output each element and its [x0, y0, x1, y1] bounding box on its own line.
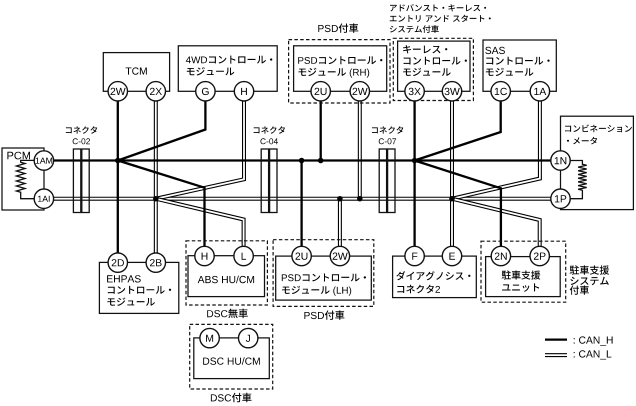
dashed group parking assist system: [481, 241, 566, 302]
terminal 2B EHPAS: [146, 253, 165, 272]
label PSD RH group: [318, 23, 358, 33]
legend CAN_H sample line: [545, 338, 567, 340]
connector C-04: [261, 149, 277, 213]
label keyless module line3: [403, 68, 451, 76]
connector C-07: [379, 149, 395, 213]
note advanced keyless line2: [390, 15, 491, 22]
junction CAN_L / keyless-SAS-diag-parking: [449, 196, 455, 202]
label keyless module line2: [404, 57, 467, 65]
CAN_L bus (hollow double line): [54, 197, 551, 201]
dashed group DSC: [190, 324, 273, 389]
wire H 4WD to CAN_L junction: [156, 101, 244, 199]
wire CAN_H junction to 2N parking: [415, 161, 501, 248]
label SAS line1: [485, 47, 505, 54]
box 4WD control module: [178, 46, 277, 92]
terminal 1AM PCM: [34, 151, 53, 170]
resistor in combination meter (terminating): [570, 161, 586, 199]
wire 2X-2B (CAN_L drop TCM/EHPAS): [154, 101, 158, 253]
label C-04: [260, 138, 278, 144]
terminal 1C SAS: [491, 82, 510, 101]
wire CAN_L junction to L ABS: [156, 199, 244, 247]
junction CAN_L / PSD(LH) 2W: [337, 196, 343, 202]
terminal 1P meter: [551, 189, 570, 208]
terminal 2U PSD LH: [292, 246, 311, 265]
label DSC-less group: [207, 309, 248, 319]
label PSD LH group: [304, 310, 344, 320]
box TCM: [103, 53, 169, 92]
label diagnosis connector line1: [396, 271, 470, 280]
label connector C-04: [254, 126, 285, 133]
terminal 3W keyless: [442, 82, 461, 101]
box PSD control module (LH): [276, 256, 372, 300]
label SAS line2: [486, 57, 549, 65]
label DSC group: [211, 393, 252, 403]
label EHPAS line2: [108, 286, 171, 294]
label connector C-07: [372, 126, 403, 133]
terminal F diagnosis: [405, 246, 424, 265]
terminal 2X TCM: [146, 82, 165, 101]
label parking assist unit line1: [502, 270, 541, 279]
label EHPAS line3: [107, 298, 154, 306]
dashed group DSC-less (ABS): [186, 241, 267, 305]
wire 2W PSD(RH) drop: [358, 101, 362, 199]
box ABS HU/CM: [188, 256, 265, 297]
junction CAN_H / TCM-4WD-EHPAS-ABS: [115, 158, 121, 164]
junction CAN_L / PSD(RH) 2W: [357, 196, 363, 202]
label diagnosis connector line2: [397, 285, 440, 294]
label PSD control module RH line2: [299, 68, 370, 78]
box SAS control module: [483, 40, 556, 91]
label 4WD control module line1: [186, 56, 272, 64]
legend CAN_H text: [574, 336, 613, 345]
terminal J DSC: [239, 328, 258, 347]
resistor in PCM (terminating): [16, 160, 34, 198]
label PSD control module LH line2: [282, 286, 351, 296]
wire 2U PSD(RH) drop: [320, 101, 322, 161]
terminal M DSC: [200, 328, 219, 347]
label C-07: [379, 138, 396, 144]
terminal 2W PSD RH: [350, 82, 369, 101]
wire CAN_L junction to 2P parking: [452, 199, 540, 247]
dashed group PSD (RH): [289, 40, 390, 103]
box DSC HU/CM: [194, 338, 269, 379]
label PCM: [7, 152, 30, 160]
legend CAN_L text: [574, 350, 612, 359]
wire 1C SAS to CAN_H junction: [415, 101, 501, 161]
CAN_H bus: [54, 159, 551, 161]
box PSD control module (RH): [294, 46, 387, 92]
label parking assist system line3: [570, 286, 589, 295]
label 4WD control module line2: [187, 67, 235, 75]
terminal 2U PSD RH: [311, 82, 330, 101]
terminal E diagnosis: [442, 246, 461, 265]
terminal 1N meter: [551, 151, 570, 170]
wire 2W PSD(LH) drop: [338, 199, 342, 247]
note advanced keyless line3: [390, 25, 439, 33]
label ABS HU/CM: [198, 276, 254, 284]
terminal 2W TCM: [108, 82, 127, 101]
box keyless control module: [398, 41, 470, 91]
label parking assist system line1: [570, 265, 610, 274]
junction CAN_L / TCM-4WD-EHPAS-ABS: [153, 196, 159, 202]
label DSC HU/CM: [203, 357, 260, 365]
box PCM: [2, 148, 44, 210]
legend CAN_L sample line: [545, 353, 567, 357]
label parking assist system line2: [570, 277, 608, 285]
connector C-02: [73, 149, 89, 213]
wire 3X-F (CAN_H drop keyless/diag): [413, 101, 415, 246]
junction CAN_H / PSD(RH) 2U: [318, 158, 324, 164]
wire 3W-E (CAN_L drop keyless/diag): [450, 101, 454, 246]
box EHPAS control module: [99, 262, 178, 313]
terminal H ABS: [195, 246, 214, 265]
terminal 1A SAS: [530, 82, 549, 101]
dashed group PSD (LH): [273, 240, 374, 307]
wire 2W-2D (CAN_H drop TCM/EHPAS): [117, 101, 119, 253]
label PSD control module LH line1: [282, 274, 366, 282]
label combination meter line2: [567, 137, 597, 145]
wire 2U PSD(LH) drop: [300, 161, 302, 247]
box combination meter: [561, 116, 634, 209]
label EHPAS line1: [107, 275, 141, 282]
label TCM: [126, 67, 147, 74]
terminal 2D EHPAS: [108, 253, 127, 272]
box parking assist unit: [486, 257, 561, 297]
label PSD control module RH line1: [298, 56, 382, 64]
label connector C-02: [66, 126, 97, 133]
terminal 2P parking: [530, 246, 549, 265]
wire CAN_H junction to H ABS: [118, 161, 205, 247]
label combination meter line1: [565, 125, 632, 133]
terminal 2W PSD LH: [330, 246, 349, 265]
terminal 3X keyless: [405, 82, 424, 101]
terminal H 4WD: [234, 82, 253, 101]
box diagnosis connector 2: [393, 256, 477, 298]
wire G 4WD to CAN_H junction: [118, 101, 206, 161]
label parking assist unit line2: [502, 283, 539, 291]
label SAS line3: [486, 68, 534, 76]
junction CAN_H / keyless-SAS-diag-parking: [412, 158, 418, 164]
note advanced keyless line1: [390, 4, 486, 11]
terminal 1AI PCM: [34, 189, 53, 208]
terminal G 4WD: [196, 82, 215, 101]
label keyless module line1: [403, 45, 447, 53]
dashed group keyless: [393, 38, 473, 100]
junction CAN_H / PSD(LH) 2U: [299, 158, 305, 164]
wire 1A SAS to CAN_L junction: [452, 101, 540, 199]
terminal 2N parking: [491, 246, 510, 265]
terminal L ABS: [234, 246, 253, 265]
label C-02: [73, 138, 90, 144]
